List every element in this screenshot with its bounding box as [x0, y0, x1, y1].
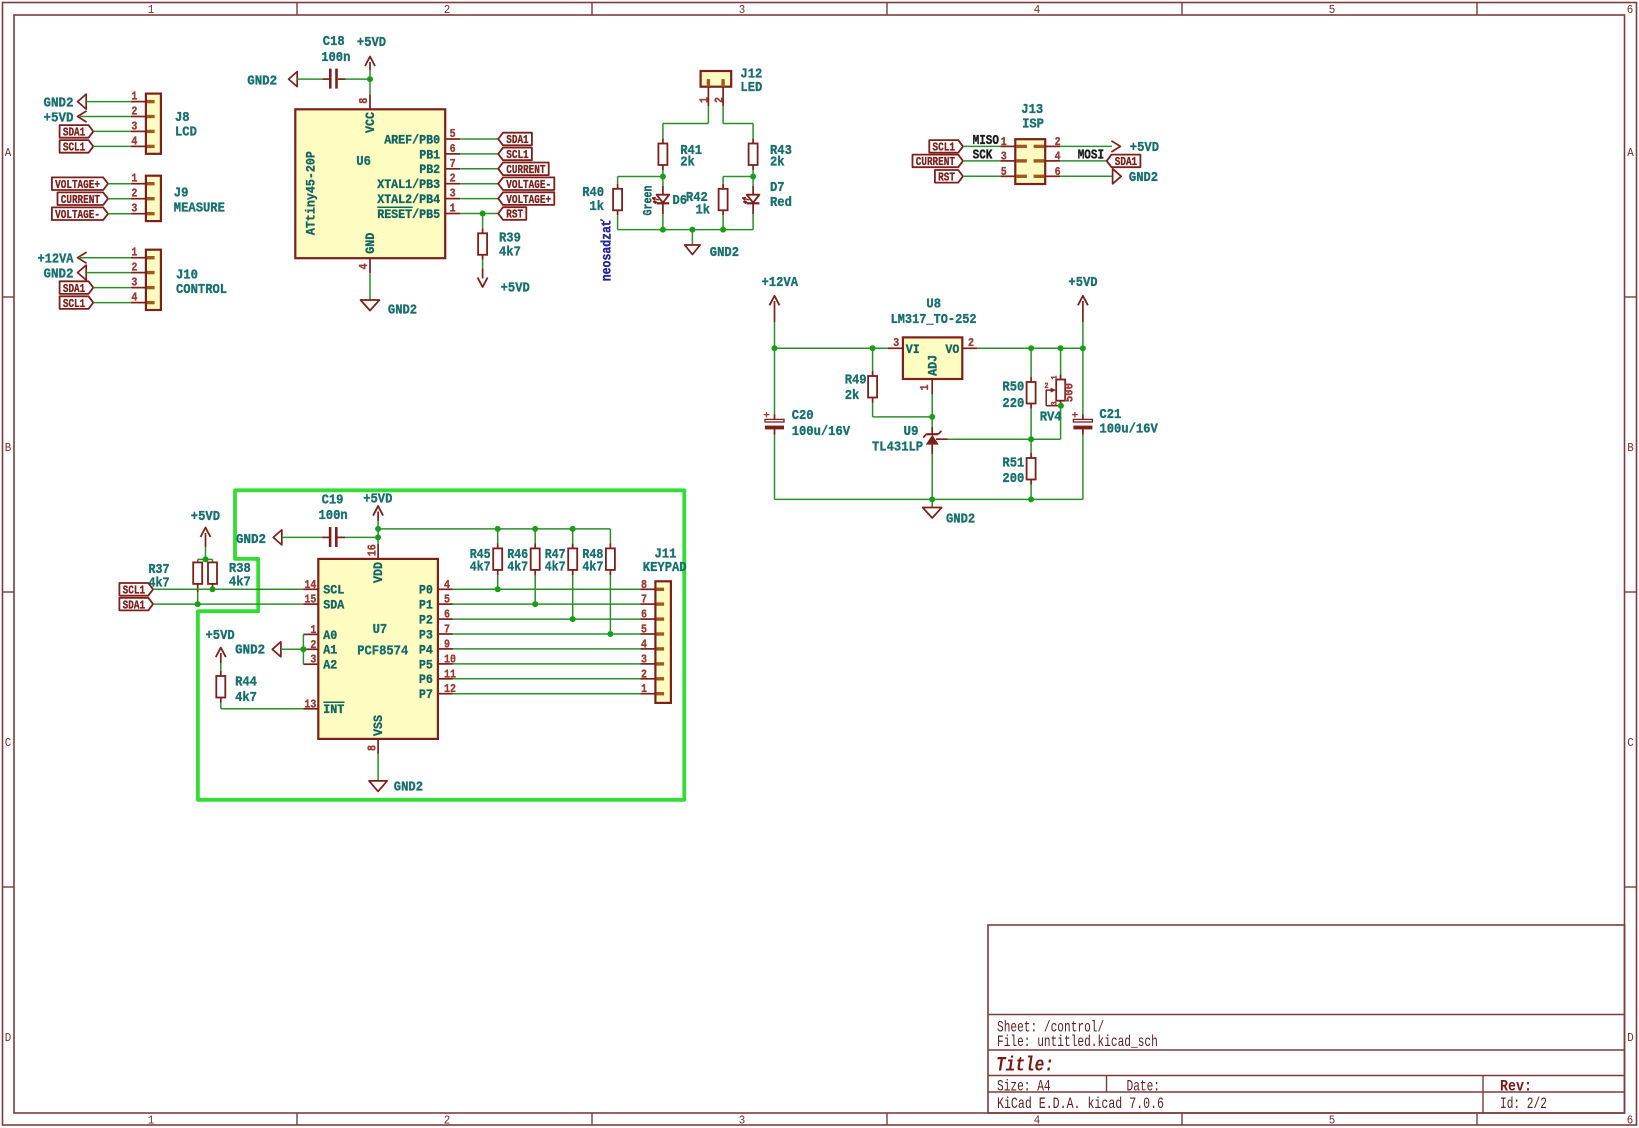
svg-text:4: 4 [131, 134, 137, 148]
svg-text:3: 3 [131, 276, 137, 290]
svg-text:R49: R49 [845, 372, 867, 388]
svg-text:A1: A1 [323, 643, 337, 658]
svg-text:9: 9 [444, 637, 450, 651]
svg-text:1: 1 [450, 202, 456, 216]
svg-text:KiCad E.D.A. kicad 7.0.6: KiCad E.D.A. kicad 7.0.6 [997, 1095, 1164, 1113]
svg-text:J8: J8 [175, 110, 190, 126]
svg-text:D: D [1627, 1031, 1634, 1045]
svg-text:XTAL2/PB4: XTAL2/PB4 [377, 192, 440, 207]
svg-text:3: 3 [450, 187, 456, 201]
svg-text:1: 1 [131, 172, 137, 186]
svg-text:3: 3 [739, 1114, 746, 1128]
svg-text:P6: P6 [419, 672, 433, 687]
svg-text:+12VA: +12VA [38, 252, 75, 268]
svg-text:Size: A4: Size: A4 [997, 1078, 1051, 1096]
svg-text:+5VD: +5VD [357, 35, 386, 51]
svg-text:+5VD: +5VD [363, 491, 392, 507]
svg-text:7: 7 [444, 623, 450, 637]
svg-text:1: 1 [148, 1114, 155, 1128]
svg-text:7: 7 [641, 593, 647, 607]
svg-text:5: 5 [1329, 3, 1336, 17]
svg-text:8: 8 [641, 578, 647, 592]
svg-text:Rev:: Rev: [1500, 1078, 1532, 1096]
svg-text:MISO: MISO [973, 134, 999, 149]
svg-text:15: 15 [304, 593, 316, 607]
svg-text:500: 500 [1063, 383, 1077, 402]
svg-text:SCL: SCL [323, 583, 344, 598]
svg-text:ADJ: ADJ [925, 355, 940, 376]
svg-text:5: 5 [444, 593, 450, 607]
svg-text:MEASURE: MEASURE [174, 200, 225, 216]
svg-text:2: 2 [310, 638, 316, 652]
svg-text:RV4: RV4 [1040, 410, 1062, 426]
svg-text:+12VA: +12VA [762, 275, 799, 291]
svg-text:SDA: SDA [323, 598, 344, 613]
svg-text:ISP: ISP [1022, 117, 1044, 133]
svg-text:4k7: 4k7 [582, 560, 603, 576]
svg-text:VI: VI [906, 342, 920, 357]
svg-text:4k7: 4k7 [545, 560, 566, 576]
svg-text:VOLTAGE+: VOLTAGE+ [506, 193, 551, 207]
svg-text:CURRENT: CURRENT [916, 155, 955, 169]
svg-text:R50: R50 [1002, 379, 1024, 395]
svg-text:5: 5 [450, 127, 456, 141]
svg-text:VOLTAGE-: VOLTAGE- [506, 178, 551, 192]
svg-text:D7: D7 [770, 180, 785, 196]
svg-text:GND2: GND2 [235, 643, 265, 659]
svg-text:A: A [5, 146, 12, 160]
svg-text:SCL1: SCL1 [933, 141, 955, 155]
svg-text:File: untitled.kicad_sch: File: untitled.kicad_sch [997, 1033, 1158, 1051]
svg-text:VOLTAGE-: VOLTAGE- [55, 208, 100, 222]
svg-text:2k: 2k [770, 154, 785, 170]
svg-text:R51: R51 [1002, 456, 1024, 472]
svg-text:3: 3 [131, 119, 137, 133]
svg-text:P2: P2 [419, 613, 433, 628]
svg-text:GND2: GND2 [1129, 170, 1158, 186]
svg-text:AREF/PB0: AREF/PB0 [384, 132, 440, 147]
svg-text:+5VD: +5VD [206, 628, 235, 644]
svg-text:2: 2 [1044, 382, 1048, 391]
svg-text:GND2: GND2 [44, 266, 74, 282]
svg-text:4: 4 [1055, 150, 1061, 164]
svg-text:1: 1 [1001, 135, 1007, 149]
svg-text:GND2: GND2 [44, 95, 74, 111]
svg-text:SCK: SCK [973, 148, 994, 163]
svg-text:4k7: 4k7 [470, 560, 491, 576]
svg-text:6: 6 [444, 608, 450, 622]
svg-text:VO: VO [945, 342, 959, 357]
svg-text:C: C [1627, 736, 1634, 750]
svg-text:P5: P5 [419, 657, 433, 672]
svg-text:C20: C20 [792, 408, 814, 424]
svg-text:13: 13 [304, 697, 316, 711]
svg-text:J9: J9 [174, 186, 189, 202]
svg-text:SCL1: SCL1 [63, 141, 85, 155]
svg-text:2k: 2k [845, 388, 860, 404]
svg-text:LM317_TO-252: LM317_TO-252 [891, 312, 977, 328]
svg-text:U9: U9 [904, 424, 919, 440]
svg-text:+: + [1071, 411, 1078, 423]
svg-text:C21: C21 [1099, 407, 1121, 423]
svg-text:SCL1: SCL1 [123, 584, 145, 598]
svg-text:4: 4 [641, 637, 647, 651]
svg-text:4: 4 [131, 291, 137, 305]
svg-text:2: 2 [444, 1114, 451, 1128]
svg-text:8: 8 [357, 98, 371, 104]
svg-text:4: 4 [357, 264, 371, 270]
svg-text:+5VD: +5VD [1068, 275, 1097, 291]
svg-text:U7: U7 [373, 622, 388, 638]
svg-text:P4: P4 [419, 642, 433, 657]
svg-text:2: 2 [968, 336, 974, 350]
svg-text:220: 220 [1002, 396, 1024, 412]
svg-text:VOLTAGE+: VOLTAGE+ [55, 178, 100, 192]
svg-text:GND2: GND2 [247, 73, 277, 89]
svg-text:A2: A2 [323, 658, 337, 673]
svg-text:+5VD: +5VD [44, 110, 74, 126]
svg-text:2: 2 [450, 172, 456, 186]
svg-text:GND: GND [363, 233, 378, 254]
svg-text:J10: J10 [176, 268, 198, 284]
svg-text:7: 7 [450, 157, 456, 171]
svg-text:VDD: VDD [371, 562, 386, 583]
svg-text:Green: Green [640, 185, 655, 215]
svg-text:Title:: Title: [996, 1055, 1054, 1078]
svg-text:5: 5 [641, 623, 647, 637]
svg-text:1: 1 [918, 385, 932, 391]
svg-text:+5VD: +5VD [191, 509, 220, 525]
svg-text:4k7: 4k7 [235, 690, 257, 706]
svg-text:2: 2 [1055, 135, 1061, 149]
svg-text:RST: RST [938, 171, 955, 185]
svg-text:1: 1 [310, 623, 316, 637]
svg-text:P1: P1 [419, 598, 433, 613]
svg-text:1: 1 [131, 246, 137, 260]
svg-text:2k: 2k [680, 154, 695, 170]
svg-text:P3: P3 [419, 627, 433, 642]
svg-text:GND2: GND2 [394, 779, 423, 795]
svg-text:1: 1 [148, 3, 155, 17]
svg-text:2: 2 [444, 3, 451, 17]
svg-text:4: 4 [1034, 3, 1041, 17]
svg-text:1: 1 [698, 97, 712, 103]
svg-text:6: 6 [1627, 1114, 1634, 1128]
svg-text:SCL1: SCL1 [506, 148, 528, 162]
svg-text:SCL1: SCL1 [63, 297, 85, 311]
svg-text:P7: P7 [419, 687, 433, 702]
svg-text:3: 3 [1051, 401, 1060, 405]
svg-text:A: A [1627, 146, 1634, 160]
svg-text:C18: C18 [323, 34, 345, 50]
svg-text:C19: C19 [322, 493, 344, 509]
svg-text:6: 6 [1055, 165, 1061, 179]
svg-text:14: 14 [304, 578, 316, 592]
svg-text:100n: 100n [321, 50, 350, 66]
svg-text:+5VD: +5VD [501, 281, 530, 297]
svg-text:RST: RST [506, 208, 523, 222]
svg-text:TL431LP: TL431LP [872, 440, 923, 456]
svg-text:2: 2 [641, 667, 647, 681]
svg-text:Date:: Date: [1127, 1078, 1161, 1096]
svg-text:4: 4 [444, 578, 450, 592]
svg-text:VCC: VCC [363, 112, 378, 133]
svg-text:neosadzať: neosadzať [599, 219, 615, 282]
svg-text:XTAL1/PB3: XTAL1/PB3 [377, 177, 440, 192]
svg-text:CURRENT: CURRENT [506, 163, 545, 177]
svg-text:RESET/PB5: RESET/PB5 [377, 207, 440, 222]
svg-text:4k7: 4k7 [507, 560, 528, 576]
svg-text:B: B [1627, 441, 1634, 455]
svg-text:LCD: LCD [175, 125, 197, 141]
svg-text:1: 1 [131, 90, 137, 104]
svg-text:VSS: VSS [371, 715, 386, 736]
svg-text:6: 6 [641, 608, 647, 622]
svg-text:PB2: PB2 [419, 162, 440, 177]
svg-text:U6: U6 [356, 154, 371, 170]
svg-text:1k: 1k [696, 202, 711, 218]
svg-text:SDA1: SDA1 [506, 133, 528, 147]
svg-text:D: D [5, 1031, 12, 1045]
svg-text:8: 8 [366, 745, 380, 751]
svg-text:SDA1: SDA1 [1115, 155, 1137, 169]
svg-text:R44: R44 [235, 675, 257, 691]
svg-text:CONTROL: CONTROL [176, 282, 227, 298]
svg-text:GND2: GND2 [710, 245, 739, 261]
svg-text:P0: P0 [419, 583, 433, 598]
svg-text:CURRENT: CURRENT [61, 193, 100, 207]
svg-text:3: 3 [310, 653, 316, 667]
svg-text:1k: 1k [589, 199, 604, 215]
svg-text:5: 5 [1001, 165, 1007, 179]
svg-text:2: 2 [712, 97, 726, 103]
svg-text:SDA1: SDA1 [63, 282, 85, 296]
svg-text:PCF8574: PCF8574 [357, 643, 408, 659]
svg-text:ATtiny45-20P: ATtiny45-20P [304, 151, 319, 235]
svg-text:100u/16V: 100u/16V [1099, 422, 1158, 438]
svg-text:16: 16 [366, 544, 380, 556]
svg-text:A0: A0 [323, 628, 337, 643]
svg-text:KEYPAD: KEYPAD [643, 560, 687, 576]
svg-text:100u/16V: 100u/16V [792, 424, 851, 440]
svg-text:+: + [763, 411, 770, 423]
svg-text:3: 3 [739, 3, 746, 17]
svg-text:SDA1: SDA1 [63, 126, 85, 140]
svg-text:GND2: GND2 [236, 532, 266, 548]
svg-text:PB1: PB1 [419, 147, 440, 162]
svg-text:6: 6 [450, 142, 456, 156]
svg-text:4k7: 4k7 [229, 575, 251, 591]
svg-text:4: 4 [1034, 1114, 1041, 1128]
svg-text:Id: 2/2: Id: 2/2 [1500, 1095, 1547, 1113]
svg-text:U8: U8 [926, 296, 941, 312]
svg-text:INT: INT [323, 702, 344, 717]
svg-text:200: 200 [1002, 471, 1024, 487]
svg-text:6: 6 [1627, 3, 1634, 17]
svg-text:3: 3 [131, 202, 137, 216]
svg-text:2: 2 [131, 187, 137, 201]
svg-text:B: B [5, 441, 12, 455]
svg-text:GND2: GND2 [388, 302, 417, 318]
svg-text:3: 3 [893, 336, 899, 350]
svg-text:1: 1 [641, 682, 647, 696]
svg-text:SDA1: SDA1 [123, 598, 145, 612]
svg-text:5: 5 [1329, 1114, 1336, 1128]
svg-text:100n: 100n [319, 508, 348, 524]
svg-text:3: 3 [1001, 150, 1007, 164]
svg-text:4k7: 4k7 [499, 245, 521, 261]
svg-text:Red: Red [770, 195, 792, 211]
svg-text:GND2: GND2 [946, 511, 975, 527]
svg-text:3: 3 [641, 652, 647, 666]
svg-text:1: 1 [1051, 375, 1060, 379]
svg-text:LED: LED [740, 80, 762, 96]
svg-text:2: 2 [131, 105, 137, 119]
svg-text:2: 2 [131, 261, 137, 275]
svg-text:C: C [5, 736, 12, 750]
